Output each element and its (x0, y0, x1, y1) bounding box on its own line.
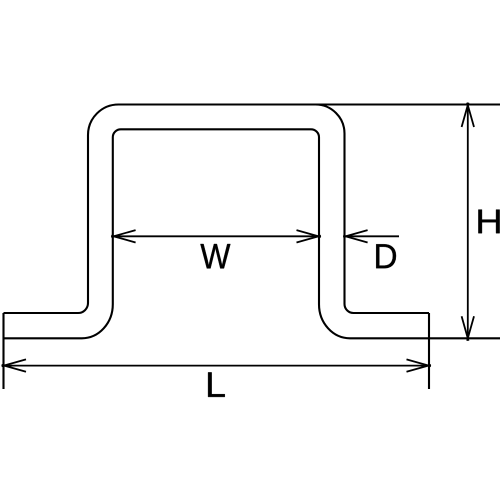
dimension line W (114, 235, 319, 237)
dimension line L (4, 365, 429, 367)
extension line top (H dimension) (316, 103, 500, 105)
arrowhead H bottom (462, 316, 474, 340)
label D (376, 244, 396, 268)
arrowhead W left (111, 230, 135, 242)
label L (208, 372, 225, 396)
label W (200, 244, 230, 268)
arrowhead H top (462, 103, 474, 127)
dimension line H (467, 105, 469, 338)
arrowhead L right (407, 359, 431, 371)
label H (478, 210, 499, 234)
extension line right foot (L dimension) (428, 313, 430, 389)
staple outer contour (4, 105, 430, 314)
arrowhead D (343, 230, 367, 242)
dimension line D (346, 235, 399, 237)
arrowhead W right / D left outer (297, 230, 321, 242)
extension line left foot (L dimension) (2, 313, 4, 389)
arrowhead L left (2, 359, 26, 371)
staple inner contour (4, 129, 500, 338)
